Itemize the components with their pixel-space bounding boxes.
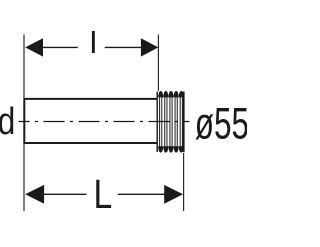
svg-text:ø55: ø55	[195, 99, 247, 149]
svg-text:d: d	[0, 100, 15, 142]
svg-text:L: L	[94, 171, 113, 217]
